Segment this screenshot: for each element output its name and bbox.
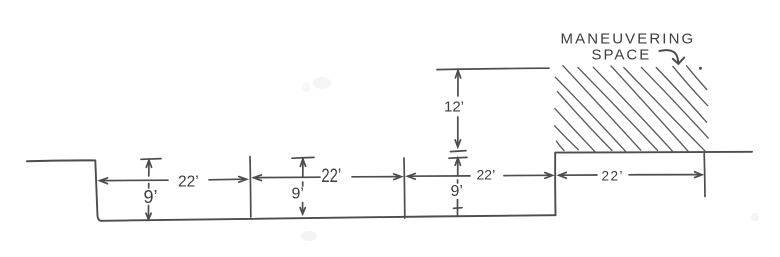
dim line 22' stall 3 left part [408, 175, 470, 177]
dim line 22' maneuvering left part [559, 174, 597, 176]
9ft dim stall3 bottom tick [454, 207, 463, 210]
svg-text:22’: 22’ [477, 167, 496, 183]
curb line right segment [555, 151, 752, 154]
curb line left segment [27, 159, 94, 162]
stall divider 2 [403, 158, 406, 218]
extension line right of maneuvering dim [703, 154, 706, 197]
9ft dim stall2 up arrow [300, 159, 305, 166]
dim line 22' stall 2 left part [254, 176, 320, 178]
9ft dim stall3 vertical upper [457, 158, 459, 176]
12ft dim top extension line [437, 68, 549, 69]
svg-text:12’: 12’ [444, 98, 464, 115]
9ft dim stall1 vertical upper [148, 160, 150, 176]
faint scan smudge bottom middle [301, 231, 317, 241]
leader arrow from SPACE label [660, 50, 679, 62]
9ft dim stall1 up arrow [146, 160, 151, 167]
9ft dim stall1 down arrow [146, 213, 151, 219]
9ft dim stall3 vertical dash [457, 180, 459, 183]
9ft dim stall1 vertical lower [148, 206, 150, 220]
svg-text:9’: 9’ [292, 186, 304, 203]
dim arrow right stall2 [394, 174, 402, 180]
stall divider 1 [249, 157, 252, 218]
9ft dim stall3 vertical lower [457, 200, 459, 217]
dim arrow right maneuvering [695, 172, 702, 178]
9ft dim stall1 vertical dash [148, 184, 150, 189]
svg-text:22’: 22’ [321, 165, 341, 186]
faint scan smudge right [751, 213, 759, 221]
right wall of parking bay [554, 153, 556, 215]
12ft dim vertical upper [457, 71, 459, 97]
12ft dim up arrow [455, 71, 460, 78]
dim arrow left stall2 [254, 175, 262, 181]
dim arrow left stall1 [100, 178, 108, 184]
dim line 22' stall 1 right part [209, 178, 244, 181]
svg-text:MANEUVERING: MANEUVERING [561, 31, 696, 48]
9ft dim stall2 T-bar [292, 156, 314, 159]
hatching of maneuvering space [555, 66, 709, 153]
svg-text:22’: 22’ [602, 169, 625, 184]
12ft dim vertical lower [457, 117, 459, 147]
9ft dim stall2 vertical lower [302, 203, 304, 215]
9ft dim stall3 T-bar [449, 156, 467, 159]
9ft dim stall2 vertical upper [302, 159, 304, 177]
9ft dim stall2 down arrow [300, 208, 305, 214]
9ft dim stall1 T-bar [141, 158, 161, 161]
svg-text:SPACE: SPACE [592, 47, 652, 64]
svg-text:9’: 9’ [451, 183, 463, 200]
left wall of parking bay [95, 160, 101, 221]
faint scan smudge upper middle [313, 77, 331, 89]
dim arrow right stall3 [545, 173, 553, 179]
dim arrow left maneuvering [559, 172, 567, 178]
12ft dim down arrow [455, 140, 460, 147]
9ft dim stall3 up arrow [455, 158, 460, 165]
dim arrow left stall3 [408, 174, 416, 180]
dim arrow right stall1 [239, 177, 247, 183]
svg-text:9’: 9’ [144, 187, 158, 207]
dim line 22' stall 2 right part [352, 176, 400, 178]
dim line 22' stall 3 right part [504, 174, 549, 176]
svg-text:22’: 22’ [178, 173, 199, 190]
small dot near arrow [699, 67, 702, 70]
tick at base of 12ft dim [451, 151, 467, 152]
dim line 22' stall 1 left part [100, 179, 168, 181]
bottom line of parking bay [101, 215, 556, 221]
9ft dim stall2 vertical dash [302, 182, 304, 186]
dim line 22' maneuvering right part [629, 174, 699, 176]
